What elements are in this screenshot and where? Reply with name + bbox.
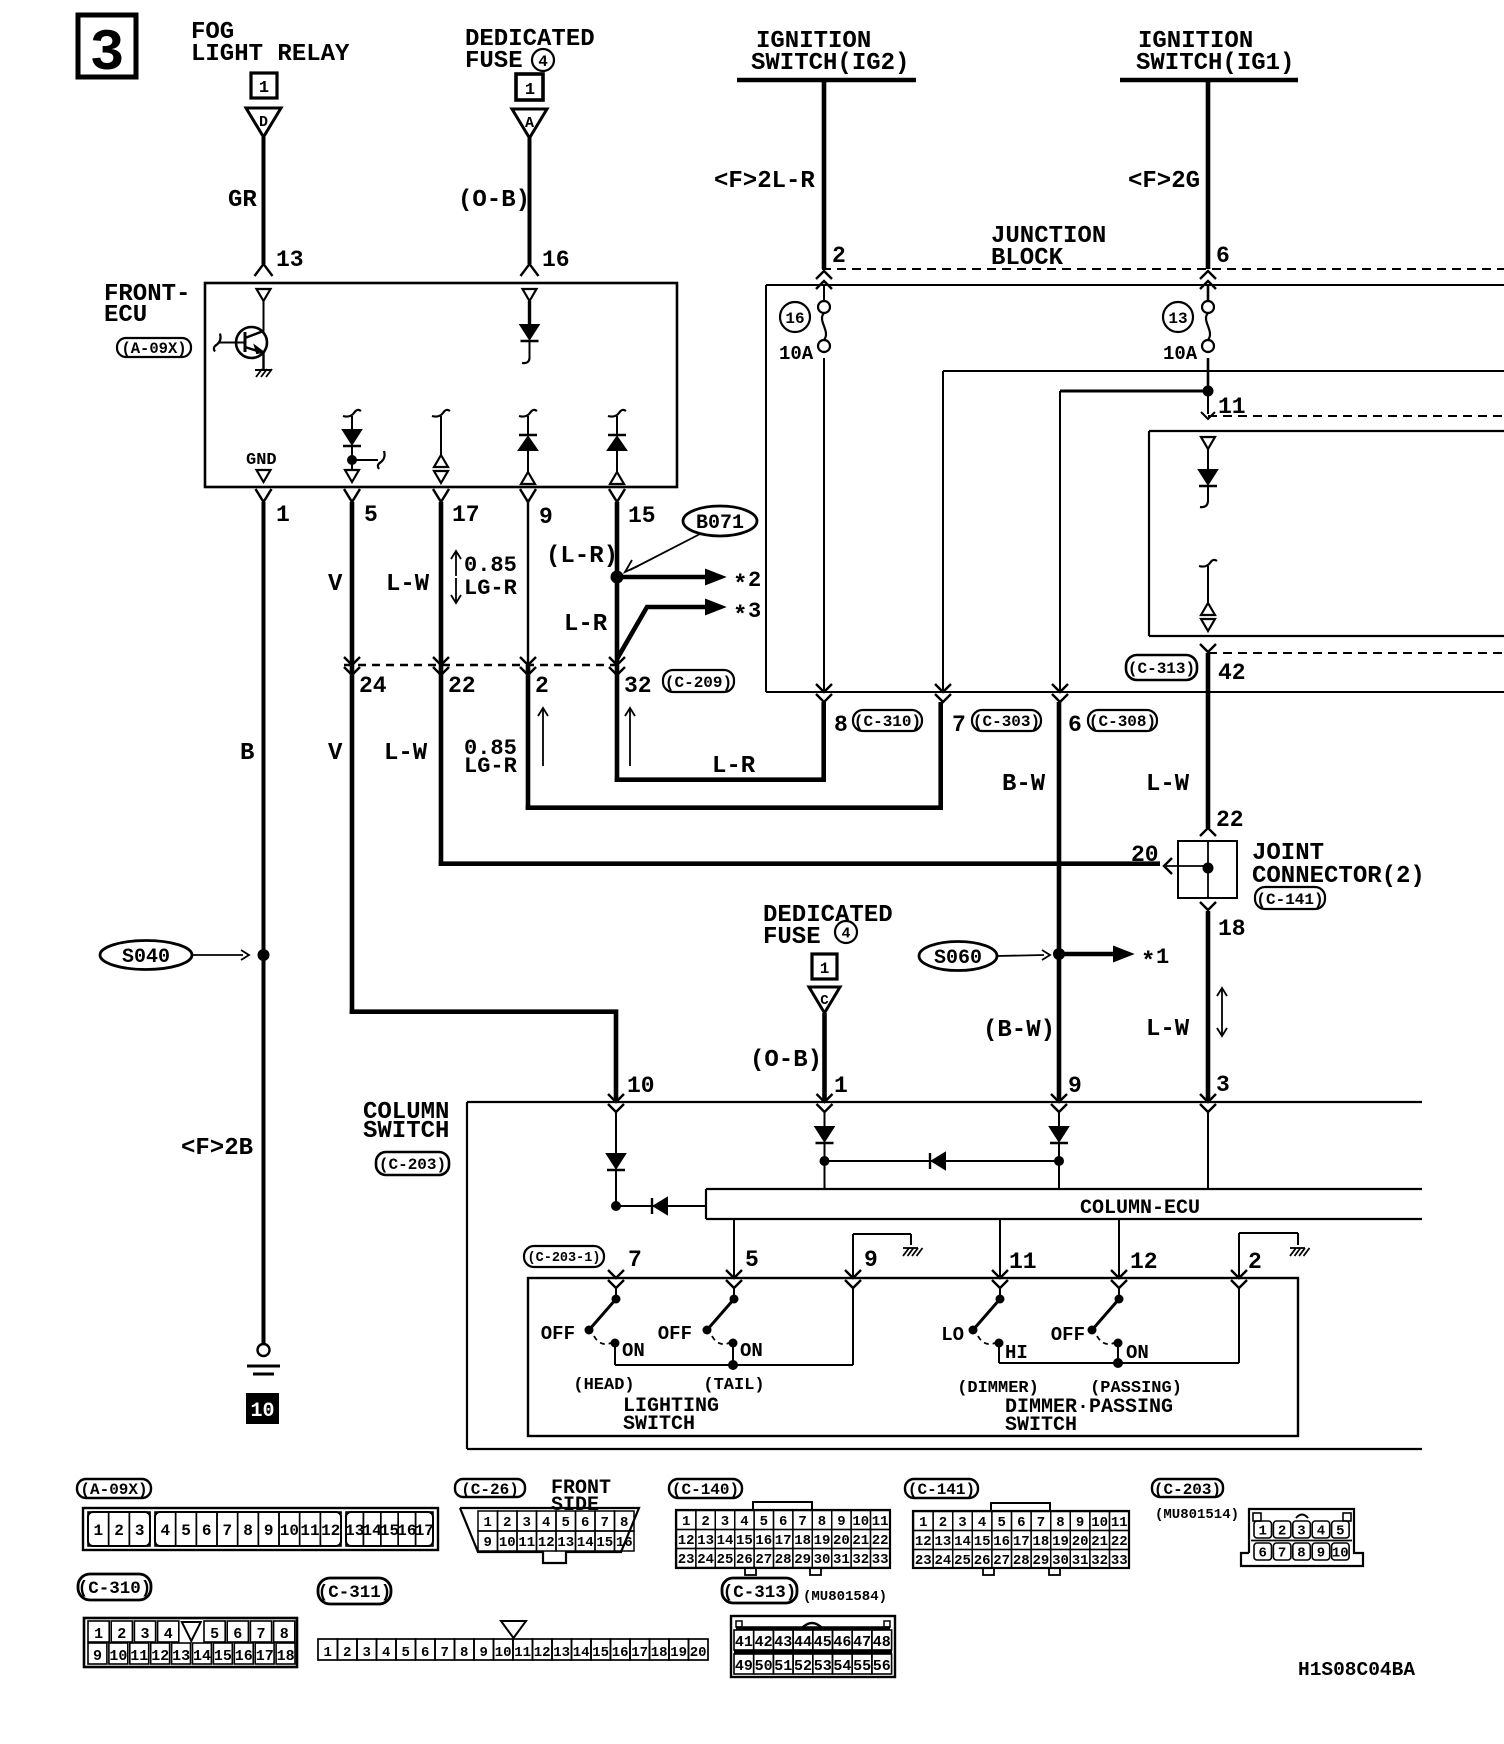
svg-text:8: 8: [1056, 1515, 1064, 1531]
svg-text:16: 16: [785, 310, 804, 328]
wire L-R from ECU pin 15 to C-310 pin 8: [615, 502, 826, 782]
svg-text:(A-09X): (A-09X): [121, 340, 186, 358]
svg-text:10: 10: [495, 1645, 512, 1661]
svg-text:10: 10: [250, 1400, 274, 1423]
svg-text:7: 7: [798, 1514, 806, 1530]
svg-text:16: 16: [235, 1648, 253, 1665]
svg-text:3: 3: [140, 1626, 149, 1643]
chevrons at column switch pin 10: [608, 1073, 655, 1112]
svg-text:(C-310): (C-310): [78, 1579, 152, 1599]
wire L-W from C-313 pin 42 to joint connector pin 22: [1206, 653, 1211, 828]
wire V from ECU pin 5 to column switch pin 10: [350, 502, 616, 1102]
svg-text:9: 9: [1076, 1515, 1084, 1531]
svg-text:25: 25: [954, 1553, 971, 1569]
label (TAIL): [703, 1376, 764, 1395]
svg-text:3: 3: [1297, 1524, 1305, 1540]
connector pill C-209: [663, 670, 734, 692]
svg-text:2: 2: [701, 1514, 709, 1530]
chevron into joint connector pin 22: [1200, 807, 1244, 836]
svg-text:18: 18: [277, 1648, 295, 1665]
connector pill A-09X header: [77, 1479, 151, 1499]
junction block label: [991, 223, 1106, 272]
svg-text:2: 2: [939, 1515, 947, 1531]
svg-text:1: 1: [682, 1514, 690, 1530]
svg-text:11: 11: [300, 1522, 319, 1540]
svg-text:17: 17: [415, 1522, 434, 1540]
svg-text:18: 18: [651, 1645, 668, 1661]
svg-text:ON: ON: [622, 1340, 645, 1362]
svg-text:9: 9: [479, 1645, 487, 1661]
right ECU entry triangle: [1201, 437, 1215, 449]
svg-text:3: 3: [748, 599, 761, 624]
connector diagram C-203: [1241, 1509, 1363, 1566]
svg-text:52: 52: [794, 1658, 812, 1675]
svg-text:*: *: [733, 572, 747, 599]
svg-text:(TAIL): (TAIL): [703, 1376, 764, 1395]
svg-text:49: 49: [735, 1658, 753, 1675]
svg-text:6: 6: [233, 1626, 242, 1643]
svg-text:42: 42: [1218, 660, 1246, 686]
svg-text:23: 23: [678, 1552, 695, 1568]
connector diagram C-141: [913, 1503, 1129, 1575]
label L-W right upper: [1146, 771, 1190, 798]
ECU pin 1 fork: [256, 489, 290, 528]
svg-text:4: 4: [542, 1515, 550, 1531]
svg-text:ON: ON: [1126, 1342, 1149, 1364]
junction node S060 on wire B-W: [1053, 948, 1065, 960]
chevrons at column switch pin 1: [817, 1073, 848, 1112]
dashed connector line C-313: [1208, 652, 1504, 654]
dedicated fuse 4 label (middle): [763, 902, 893, 951]
svg-text:3: 3: [721, 1514, 729, 1530]
svg-text:7: 7: [440, 1645, 448, 1661]
pin 17 internal lead: [432, 410, 450, 483]
svg-text:(B-W): (B-W): [983, 1017, 1055, 1044]
svg-text:22: 22: [448, 673, 476, 699]
svg-text:2: 2: [832, 243, 846, 269]
sheet reference S040: [100, 941, 249, 970]
svg-text:44: 44: [794, 1634, 812, 1651]
svg-text:29: 29: [1032, 1553, 1049, 1569]
svg-text:27: 27: [755, 1552, 772, 1568]
svg-text:10A: 10A: [779, 343, 814, 365]
svg-text:8: 8: [620, 1515, 628, 1531]
svg-text:50: 50: [755, 1658, 773, 1675]
connector diagram C-140: [676, 1502, 890, 1575]
svg-text:D: D: [259, 114, 268, 131]
svg-text:9: 9: [539, 504, 553, 530]
svg-text:14: 14: [577, 1535, 594, 1551]
svg-text:15: 15: [596, 1535, 613, 1551]
junction block box: [766, 285, 1504, 692]
svg-text:1: 1: [276, 502, 290, 528]
svg-text:54: 54: [833, 1658, 851, 1675]
up arrow beside LG-R wire: [538, 708, 548, 766]
column ECU output pin 11 wire: [1000, 1219, 1037, 1278]
wire (O-B) to column switch pin 1: [750, 1013, 825, 1102]
label (L-R): [546, 543, 618, 570]
svg-text:17: 17: [775, 1533, 792, 1549]
pin 5 internal branch with diode D2: [343, 410, 385, 482]
svg-text:45: 45: [814, 1634, 832, 1651]
svg-text:OFF: OFF: [541, 1323, 575, 1345]
svg-text:1: 1: [834, 1073, 848, 1099]
wire from fuse 16 down to connector C-310 pin 8: [823, 358, 825, 692]
junction node S040 on wire B: [258, 949, 270, 961]
passing switch contact: [1051, 1288, 1149, 1364]
svg-text:3: 3: [362, 1645, 370, 1661]
junction block internal wire to C-303 pin 7: [943, 371, 1504, 692]
svg-text:6: 6: [202, 1522, 212, 1540]
label 0.85 LG-R lower: [464, 736, 518, 779]
connector pill C-313 and pin 42: [1126, 655, 1246, 686]
wire L-W from ECU pin 17 to joint connector pin 20: [439, 502, 1160, 866]
svg-text:12: 12: [538, 1535, 555, 1551]
svg-text:10: 10: [499, 1535, 516, 1551]
svg-text:SWITCH(IG2): SWITCH(IG2): [751, 50, 909, 77]
svg-text:(C-141): (C-141): [1256, 891, 1323, 909]
column switch box: [467, 1102, 1422, 1449]
svg-text:L-W: L-W: [384, 740, 428, 767]
connector pill C-203-1: [524, 1246, 604, 1267]
svg-text:6: 6: [1017, 1515, 1025, 1531]
svg-text:9: 9: [837, 1514, 845, 1530]
label (DIMMER): [957, 1379, 1039, 1398]
pin 16 entry triangle inside ECU: [523, 289, 537, 301]
svg-text:LG-R: LG-R: [464, 576, 518, 601]
svg-text:11: 11: [872, 1514, 889, 1530]
diode D9 between pin1 and pin9 branches: [825, 1153, 1060, 1169]
label MU801514: [1155, 1507, 1239, 1523]
svg-text:SWITCH: SWITCH: [623, 1413, 695, 1436]
svg-text:42: 42: [755, 1634, 773, 1651]
svg-text:7: 7: [223, 1522, 233, 1540]
svg-text:47: 47: [853, 1634, 871, 1651]
label B-W: [1002, 771, 1046, 798]
svg-text:4: 4: [841, 925, 850, 942]
sheet reference S060: [919, 942, 1050, 971]
label L-R horizontal run: [712, 753, 756, 780]
label (PASSING): [1090, 1379, 1182, 1398]
chevrons at C-308 pin 6: [1052, 684, 1082, 738]
svg-text:5: 5: [364, 502, 378, 528]
svg-text:7: 7: [601, 1515, 609, 1531]
chevron at C-313 pin 42: [1200, 644, 1216, 652]
svg-text:1: 1: [820, 960, 830, 978]
svg-text:0.85: 0.85: [464, 553, 517, 578]
joint connector pin 20 entry: [1131, 842, 1204, 874]
svg-text:4: 4: [538, 53, 548, 71]
ignition switch IG1 header: [1120, 28, 1298, 80]
switch common pin 2 with ground: [1239, 1233, 1310, 1278]
chevrons at C-310 pin 8: [816, 684, 848, 738]
svg-text:48: 48: [873, 1634, 891, 1651]
junction node pin 10 branch: [611, 1201, 621, 1211]
svg-text:1: 1: [919, 1515, 927, 1531]
svg-text:25: 25: [717, 1552, 734, 1568]
svg-text:(C-308): (C-308): [1089, 713, 1156, 731]
GND label and pin 1 exit triangle: [246, 451, 277, 482]
svg-text:13: 13: [557, 1535, 574, 1551]
svg-text:51: 51: [774, 1658, 792, 1675]
svg-text:11: 11: [1111, 1515, 1128, 1531]
svg-text:9: 9: [1317, 1546, 1325, 1562]
svg-text:17: 17: [631, 1645, 648, 1661]
svg-text:12: 12: [534, 1645, 551, 1661]
svg-text:55: 55: [853, 1658, 871, 1675]
branch arrow *1: [1059, 945, 1169, 976]
arrow into connector pin 11: [1201, 391, 1215, 419]
lighting switch common wire: [615, 1288, 853, 1370]
double arrow beside L-W: [1217, 988, 1227, 1036]
svg-text:(MU801514): (MU801514): [1155, 1507, 1239, 1523]
svg-text:15: 15: [736, 1533, 753, 1549]
up arrow beside L-R wire: [625, 708, 635, 766]
svg-text:4: 4: [978, 1515, 986, 1531]
chevrons at C-209 pin 32: [609, 657, 652, 699]
svg-text:22: 22: [1111, 1534, 1128, 1550]
svg-text:15: 15: [380, 1522, 399, 1540]
svg-text:V: V: [328, 571, 343, 598]
FRONT-ECU connector pill A-09X: [117, 338, 191, 358]
dimmer switch contact: [941, 1288, 1028, 1364]
svg-text:2: 2: [748, 568, 761, 593]
column ECU output pin 7: [628, 1247, 642, 1273]
svg-text:6: 6: [1068, 712, 1082, 738]
svg-text:4: 4: [161, 1522, 171, 1540]
page number box 3: [78, 15, 136, 87]
wire (O-B) from dedicated fuse to pin 16: [458, 138, 530, 264]
dedicated fuse terminal box 1 (middle): [812, 954, 837, 979]
pin 15 internal diode D4: [608, 410, 626, 484]
junction node at fuse 13 output: [1203, 386, 1246, 421]
svg-text:(C-303): (C-303): [973, 713, 1040, 731]
fuse 16 10A: [779, 285, 830, 365]
FRONT-ECU label: [104, 281, 190, 329]
diode D7 to column ECU left: [616, 1198, 706, 1214]
svg-text:30: 30: [1052, 1553, 1069, 1569]
svg-text:8: 8: [280, 1626, 289, 1643]
svg-text:5: 5: [997, 1515, 1005, 1531]
svg-text:14: 14: [954, 1534, 971, 1550]
svg-text:<F>2L-R: <F>2L-R: [714, 168, 815, 195]
fog light relay terminal box 1: [251, 73, 277, 98]
svg-text:LIGHT RELAY: LIGHT RELAY: [191, 41, 350, 68]
wire pin 3 to column ECU: [1207, 1112, 1209, 1189]
branch arrow *3: [617, 599, 761, 659]
svg-text:24: 24: [697, 1552, 714, 1568]
svg-text:OFF: OFF: [658, 1323, 692, 1345]
svg-text:16: 16: [612, 1645, 629, 1661]
svg-text:COLUMN-ECU: COLUMN-ECU: [1080, 1197, 1200, 1220]
svg-text:5: 5: [1336, 1524, 1344, 1540]
svg-text:1: 1: [1156, 945, 1169, 970]
svg-text:SWITCH: SWITCH: [363, 1118, 449, 1145]
svg-text:8: 8: [243, 1522, 253, 1540]
svg-text:27: 27: [993, 1553, 1010, 1569]
right ECU lower contact lead: [1199, 560, 1217, 631]
connector diagram A-09X: [83, 1508, 438, 1550]
connector pill C-203 header: [1152, 1479, 1223, 1499]
wire from IG1 to junction block pin 6: [1128, 80, 1230, 269]
svg-text:L-W: L-W: [1146, 771, 1190, 798]
svg-text:15: 15: [214, 1648, 232, 1665]
switch common pin 9 with ground: [853, 1234, 923, 1278]
svg-text:8: 8: [1297, 1546, 1305, 1562]
junction block connector dashed line: [822, 268, 1504, 270]
svg-text:L-R: L-R: [712, 753, 756, 780]
label L-W lower: [384, 740, 428, 767]
wire L-W from joint connector to column switch pin 3: [1206, 911, 1211, 1102]
svg-text:13: 13: [697, 1533, 714, 1549]
svg-text:2: 2: [535, 673, 549, 699]
chevrons at switch pin 9: [845, 1270, 861, 1288]
svg-text:16: 16: [542, 247, 570, 273]
svg-text:13: 13: [345, 1522, 364, 1540]
connector pill C-26 header: [455, 1479, 525, 1499]
svg-text:17: 17: [1013, 1534, 1030, 1550]
svg-text:(C-140): (C-140): [672, 1481, 739, 1499]
chevrons at junction block pin 6: [1200, 271, 1216, 289]
svg-text:2: 2: [117, 1626, 126, 1643]
connector diagram C-313: [731, 1616, 895, 1677]
dedicated fuse triangle A: [512, 109, 547, 138]
svg-text:2: 2: [114, 1522, 124, 1540]
column switch label: [363, 1099, 449, 1145]
svg-text:5: 5: [562, 1515, 570, 1531]
svg-text:(C-203): (C-203): [379, 1156, 446, 1174]
column ECU output pin 12 wire: [1119, 1219, 1158, 1278]
svg-text:L-R: L-R: [564, 611, 608, 638]
label (F)2B: [181, 1135, 253, 1162]
svg-text:3: 3: [135, 1522, 145, 1540]
ground reference box 10: [247, 1394, 278, 1423]
sheet reference B071: [625, 506, 757, 572]
chevrons at switch pin 11: [992, 1270, 1008, 1288]
svg-text:5: 5: [401, 1645, 409, 1661]
junction block internal wire from fuse 13 to C-308 pin 6: [1060, 358, 1208, 692]
svg-text:2: 2: [1248, 1249, 1262, 1275]
chassis ground hash of transistor: [255, 369, 272, 377]
svg-text:9: 9: [1068, 1073, 1082, 1099]
svg-text:8: 8: [818, 1514, 826, 1530]
chevrons at junction block pin 2: [816, 271, 832, 289]
svg-text:A: A: [525, 115, 534, 132]
chevrons at switch pin 7: [608, 1270, 624, 1288]
svg-text:14: 14: [573, 1645, 590, 1661]
ECU pin 5 fork: [344, 489, 378, 528]
svg-text:SWITCH: SWITCH: [1005, 1414, 1077, 1437]
svg-text:4: 4: [164, 1626, 173, 1643]
svg-text:14: 14: [717, 1533, 734, 1549]
dedicated fuse terminal box 1 (top): [516, 74, 543, 100]
chevrons at C-209 pin 22: [433, 657, 476, 699]
right ECU box below pin 11: [1149, 431, 1504, 636]
svg-text:11: 11: [1009, 1249, 1037, 1275]
svg-text:BLOCK: BLOCK: [991, 245, 1064, 272]
ECU pin 9 fork: [520, 489, 553, 530]
svg-text:20: 20: [1072, 1534, 1089, 1550]
chevrons at column switch pin 9: [1051, 1073, 1082, 1112]
svg-text:7: 7: [952, 712, 966, 738]
dashed connector line pin 11: [1208, 415, 1504, 417]
svg-text:15: 15: [628, 503, 656, 529]
svg-text:(L-R): (L-R): [546, 543, 618, 570]
connector C-209 dashed line: [344, 664, 617, 666]
svg-text:7: 7: [1037, 1515, 1045, 1531]
svg-text:OFF: OFF: [1051, 1324, 1085, 1346]
svg-text:4: 4: [382, 1645, 390, 1661]
fog light relay triangle D: [246, 108, 281, 137]
svg-text:26: 26: [974, 1553, 991, 1569]
connector pill C-308: [1088, 710, 1157, 731]
connector pill C-311 header: [318, 1578, 392, 1604]
svg-text:(A-09X): (A-09X): [80, 1481, 147, 1499]
svg-text:10: 10: [627, 1073, 655, 1099]
svg-text:1: 1: [94, 1522, 104, 1540]
diode D6 on pin 10 branch: [607, 1112, 625, 1206]
svg-text:18: 18: [1032, 1534, 1049, 1550]
svg-text:<F>2B: <F>2B: [181, 1135, 253, 1162]
dimmer passing switch label: [1005, 1396, 1173, 1437]
svg-text:4: 4: [740, 1514, 748, 1530]
svg-text:(C-141): (C-141): [908, 1481, 975, 1499]
svg-text:(O-B): (O-B): [458, 187, 530, 214]
label V upper: [328, 571, 343, 598]
joint connector box C-141: [1178, 841, 1237, 898]
svg-text:B: B: [240, 740, 254, 767]
svg-text:24: 24: [934, 1553, 951, 1569]
svg-text:11: 11: [518, 1535, 535, 1551]
svg-text:32: 32: [1091, 1553, 1108, 1569]
svg-text:41: 41: [735, 1634, 753, 1651]
svg-text:(C-313): (C-313): [723, 1583, 797, 1603]
dimmer passing common wire: [999, 1288, 1239, 1368]
svg-text:26: 26: [736, 1552, 753, 1568]
svg-text:12: 12: [1130, 1249, 1158, 1275]
svg-text:(C-203): (C-203): [1154, 1481, 1221, 1499]
svg-text:12: 12: [915, 1534, 932, 1550]
wire from IG2 to junction block pin 2: [714, 80, 846, 269]
svg-text:8: 8: [460, 1645, 468, 1661]
label L-W right lower: [1146, 1016, 1190, 1043]
chevron out of joint connector pin 18: [1200, 902, 1246, 942]
svg-text:*: *: [733, 603, 747, 630]
svg-text:3: 3: [1216, 1072, 1230, 1098]
svg-text:18: 18: [1218, 916, 1246, 942]
svg-text:21: 21: [1091, 1534, 1108, 1550]
label (HEAD): [573, 1376, 634, 1395]
svg-text:10: 10: [852, 1514, 869, 1530]
svg-text:V: V: [328, 740, 343, 767]
lighting switch TAIL contact: [658, 1288, 763, 1365]
connector pill C-310: [853, 710, 922, 731]
svg-text:12: 12: [151, 1648, 169, 1665]
connector diagram C-26: [460, 1508, 639, 1563]
svg-text:12: 12: [678, 1533, 695, 1549]
svg-text:(C-310): (C-310): [854, 713, 921, 731]
svg-text:56: 56: [873, 1658, 891, 1675]
svg-text:7: 7: [1278, 1546, 1286, 1562]
svg-text:HI: HI: [1005, 1342, 1028, 1364]
diode D10 on pin 9 branch: [1050, 1112, 1068, 1189]
svg-text:FUSE: FUSE: [763, 924, 821, 951]
svg-text:53: 53: [814, 1658, 832, 1675]
drawing number: [1298, 1659, 1415, 1681]
svg-text:S060: S060: [934, 947, 982, 970]
svg-text:H1S08C04BA: H1S08C04BA: [1298, 1659, 1415, 1681]
connector pill C-310 header: [78, 1574, 152, 1600]
